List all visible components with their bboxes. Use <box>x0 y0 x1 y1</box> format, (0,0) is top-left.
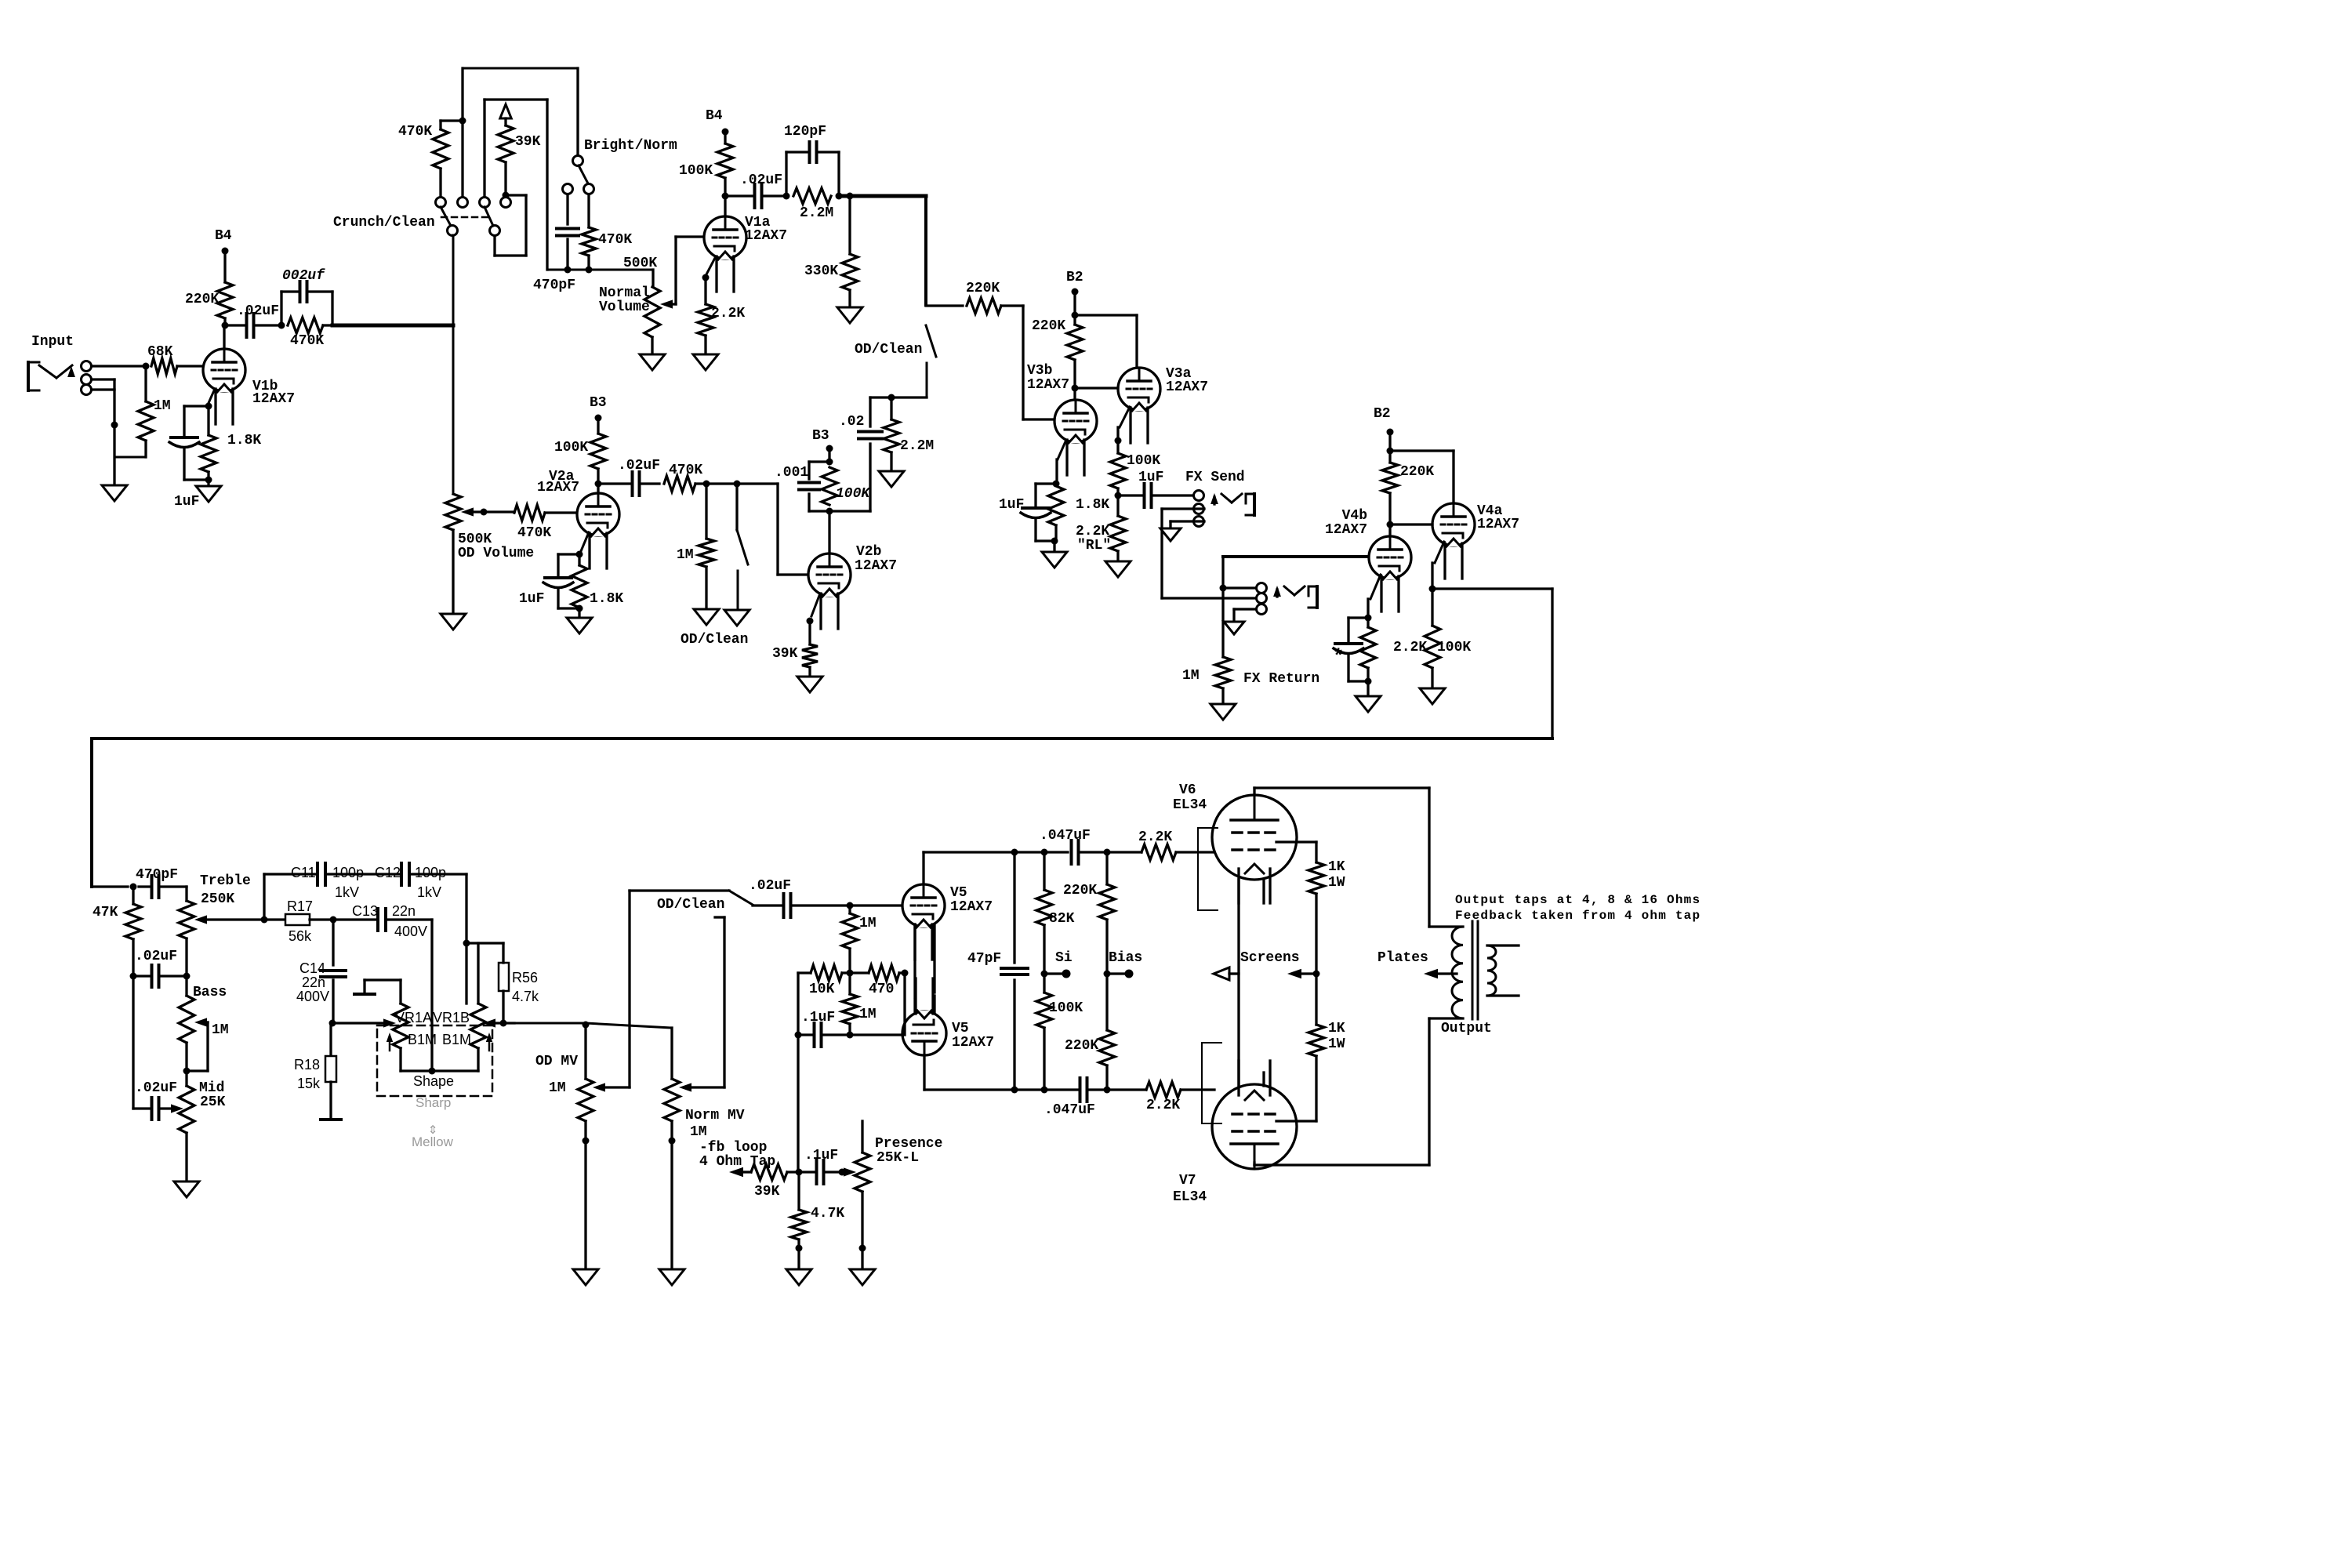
svg-text:470K: 470K <box>598 232 632 248</box>
svg-text:.02uF: .02uF <box>135 949 177 964</box>
svg-text:500K: 500K <box>623 256 657 271</box>
svg-text:Bass: Bass <box>193 985 227 1000</box>
svg-text:Screens: Screens <box>1240 950 1300 966</box>
svg-text:OD/Clean: OD/Clean <box>855 342 922 358</box>
svg-text:Presence: Presence <box>875 1136 942 1152</box>
svg-text:Output: Output <box>1441 1021 1492 1036</box>
svg-text:25K-L: 25K-L <box>877 1150 919 1166</box>
svg-text:2.2K: 2.2K <box>1076 524 1109 539</box>
svg-text:VR1B: VR1B <box>433 1010 470 1025</box>
svg-text:1M: 1M <box>677 547 694 563</box>
svg-text:2.2K: 2.2K <box>1138 829 1172 845</box>
svg-text:Bright/Norm: Bright/Norm <box>584 138 677 154</box>
svg-text:V5: V5 <box>950 885 967 901</box>
svg-text:*: * <box>1333 647 1344 668</box>
svg-text:EL34: EL34 <box>1173 1189 1207 1205</box>
svg-text:22n: 22n <box>302 975 325 990</box>
svg-text:B2: B2 <box>1374 406 1391 422</box>
svg-text:1M: 1M <box>859 1007 877 1022</box>
svg-text:12AX7: 12AX7 <box>1477 517 1519 532</box>
svg-text:100p: 100p <box>415 865 446 880</box>
svg-text:Sharp: Sharp <box>416 1095 451 1110</box>
svg-text:15k: 15k <box>297 1076 321 1091</box>
svg-text:12AX7: 12AX7 <box>745 228 787 244</box>
svg-text:B1M: B1M <box>442 1032 471 1047</box>
svg-text:Shape: Shape <box>413 1073 454 1089</box>
svg-text:.02: .02 <box>839 414 864 430</box>
svg-text:1uF: 1uF <box>174 494 199 510</box>
svg-text:C13: C13 <box>352 903 378 919</box>
svg-text:V4b: V4b <box>1342 508 1367 524</box>
svg-text:400V: 400V <box>394 924 427 939</box>
svg-text:4.7K: 4.7K <box>811 1206 844 1221</box>
svg-text:1M: 1M <box>154 398 171 414</box>
svg-text:B2: B2 <box>1066 270 1083 285</box>
svg-text:Treble: Treble <box>200 873 251 889</box>
svg-text:2.2M: 2.2M <box>900 438 934 454</box>
svg-text:470K: 470K <box>517 525 551 541</box>
svg-text:Mid: Mid <box>199 1080 224 1096</box>
svg-text:400V: 400V <box>296 989 329 1004</box>
svg-text:.02uF: .02uF <box>740 172 782 188</box>
svg-text:R18: R18 <box>294 1057 320 1073</box>
svg-text:2.2K: 2.2K <box>1146 1098 1180 1113</box>
svg-text:B4: B4 <box>215 228 232 244</box>
svg-text:4.7k: 4.7k <box>512 989 539 1004</box>
svg-text:250K: 250K <box>201 891 234 907</box>
svg-text:100K: 100K <box>836 486 871 502</box>
svg-text:.1uF: .1uF <box>804 1148 838 1163</box>
svg-text:1W: 1W <box>1328 1036 1345 1052</box>
svg-text:C14: C14 <box>299 960 325 976</box>
svg-text:1.8K: 1.8K <box>590 591 623 607</box>
svg-text:100K: 100K <box>1437 640 1471 655</box>
svg-text:470K: 470K <box>290 333 324 349</box>
svg-text:1K: 1K <box>1328 859 1345 875</box>
svg-text:Output taps at 4, 8 & 16 Ohms: Output taps at 4, 8 & 16 Ohms <box>1455 893 1700 907</box>
svg-text:25K: 25K <box>200 1094 226 1110</box>
svg-text:Normal: Normal <box>599 285 650 301</box>
svg-text:100K: 100K <box>1049 1000 1083 1016</box>
svg-text:100K: 100K <box>679 163 713 179</box>
svg-text:Input: Input <box>31 334 74 350</box>
svg-text:1M: 1M <box>690 1124 707 1140</box>
svg-text:OD/Clean: OD/Clean <box>657 897 724 913</box>
svg-text:68K: 68K <box>147 344 173 360</box>
svg-text:1uF: 1uF <box>519 591 544 607</box>
svg-text:EL34: EL34 <box>1173 797 1207 813</box>
svg-text:1uF: 1uF <box>1138 470 1163 485</box>
svg-text:100K: 100K <box>554 440 588 456</box>
svg-text:220K: 220K <box>1400 464 1434 480</box>
svg-text:120pF: 120pF <box>784 124 826 140</box>
svg-text:.1uF: .1uF <box>801 1010 835 1025</box>
svg-text:470pF: 470pF <box>136 867 178 883</box>
svg-text:220K: 220K <box>1063 883 1097 898</box>
svg-text:12AX7: 12AX7 <box>537 480 579 495</box>
svg-text:"RL": "RL" <box>1077 538 1111 554</box>
svg-text:10K: 10K <box>809 982 835 997</box>
svg-text:39K: 39K <box>515 134 541 150</box>
svg-text:12AX7: 12AX7 <box>252 391 295 407</box>
svg-text:220K: 220K <box>1065 1038 1098 1054</box>
svg-text:1M: 1M <box>212 1022 229 1038</box>
svg-text:.02uF: .02uF <box>135 1080 177 1096</box>
svg-text:.02uF: .02uF <box>749 878 791 894</box>
svg-text:12AX7: 12AX7 <box>1325 522 1367 538</box>
svg-text:1kV: 1kV <box>417 884 441 900</box>
svg-text:220K: 220K <box>1032 318 1065 334</box>
svg-text:2.2K: 2.2K <box>711 306 745 321</box>
svg-text:C12: C12 <box>375 865 401 880</box>
svg-text:VR1A: VR1A <box>395 1010 432 1025</box>
svg-text:V7: V7 <box>1179 1173 1196 1189</box>
svg-text:47pF: 47pF <box>967 951 1001 967</box>
svg-text:1.8K: 1.8K <box>227 433 261 448</box>
svg-text:1.8K: 1.8K <box>1076 497 1109 513</box>
svg-text:Volume: Volume <box>599 299 650 315</box>
svg-text:1uF: 1uF <box>999 497 1024 513</box>
svg-text:V3b: V3b <box>1027 363 1052 379</box>
svg-text:B1M: B1M <box>408 1032 437 1047</box>
svg-text:470: 470 <box>869 982 894 997</box>
svg-text:Norm MV: Norm MV <box>685 1108 745 1123</box>
svg-text:500K: 500K <box>458 532 492 547</box>
svg-text:1M: 1M <box>859 916 877 931</box>
svg-text:.02uF: .02uF <box>237 303 279 319</box>
svg-text:1M: 1M <box>1182 668 1200 684</box>
svg-text:B4: B4 <box>706 108 723 124</box>
svg-text:B3: B3 <box>590 395 607 411</box>
svg-text:Mellow: Mellow <box>412 1134 454 1149</box>
svg-text:220K: 220K <box>185 292 219 307</box>
svg-text:R56: R56 <box>512 970 538 985</box>
svg-text:FX Send: FX Send <box>1185 470 1245 485</box>
svg-text:12AX7: 12AX7 <box>1166 379 1208 395</box>
svg-text:OD/Clean: OD/Clean <box>681 632 748 648</box>
svg-text:.047uF: .047uF <box>1040 828 1091 844</box>
svg-text:470pF: 470pF <box>533 278 575 293</box>
svg-text:.047uF: .047uF <box>1044 1102 1095 1118</box>
svg-text:56k: 56k <box>289 928 312 944</box>
svg-text:2.2K: 2.2K <box>1393 640 1427 655</box>
svg-text:82K: 82K <box>1049 911 1075 927</box>
svg-text:100K: 100K <box>1127 453 1160 469</box>
svg-text:12AX7: 12AX7 <box>950 899 993 915</box>
svg-text:1M: 1M <box>549 1080 566 1096</box>
svg-text:100p: 100p <box>332 865 364 880</box>
svg-text:12AX7: 12AX7 <box>952 1035 994 1051</box>
svg-text:470K: 470K <box>669 463 702 478</box>
svg-text:002uf: 002uf <box>282 268 325 284</box>
svg-text:470K: 470K <box>398 124 432 140</box>
svg-text:OD MV: OD MV <box>535 1054 578 1069</box>
svg-text:Si: Si <box>1055 950 1073 966</box>
svg-text:V6: V6 <box>1179 782 1196 798</box>
svg-text:1K: 1K <box>1328 1021 1345 1036</box>
svg-text:22n: 22n <box>392 903 416 919</box>
svg-text:Plates: Plates <box>1377 950 1428 966</box>
svg-text:V2b: V2b <box>856 544 881 560</box>
svg-text:Feedback taken from 4 ohm tap: Feedback taken from 4 ohm tap <box>1455 909 1700 923</box>
svg-text:OD Volume: OD Volume <box>458 546 534 561</box>
svg-text:12AX7: 12AX7 <box>855 558 897 574</box>
svg-text:Bias: Bias <box>1109 950 1142 966</box>
svg-text:220K: 220K <box>966 281 1000 296</box>
svg-text:4 Ohm Tap: 4 Ohm Tap <box>699 1154 775 1170</box>
svg-text:1kV: 1kV <box>335 884 359 900</box>
svg-text:FX Return: FX Return <box>1243 671 1319 687</box>
svg-text:330K: 330K <box>804 263 838 279</box>
svg-text:47K: 47K <box>93 905 118 920</box>
svg-text:R17: R17 <box>287 898 313 914</box>
svg-text:39K: 39K <box>754 1184 780 1200</box>
svg-text:.02uF: .02uF <box>618 458 660 474</box>
svg-text:39K: 39K <box>772 646 798 662</box>
svg-text:.001: .001 <box>775 465 808 481</box>
svg-text:C11: C11 <box>291 865 316 880</box>
svg-text:-fb loop: -fb loop <box>699 1140 767 1156</box>
svg-text:2.2M: 2.2M <box>800 205 833 221</box>
svg-text:12AX7: 12AX7 <box>1027 377 1069 393</box>
svg-text:B3: B3 <box>812 428 829 444</box>
svg-text:V5: V5 <box>952 1021 969 1036</box>
svg-text:1W: 1W <box>1328 875 1345 891</box>
svg-text:Crunch/Clean: Crunch/Clean <box>333 215 435 230</box>
